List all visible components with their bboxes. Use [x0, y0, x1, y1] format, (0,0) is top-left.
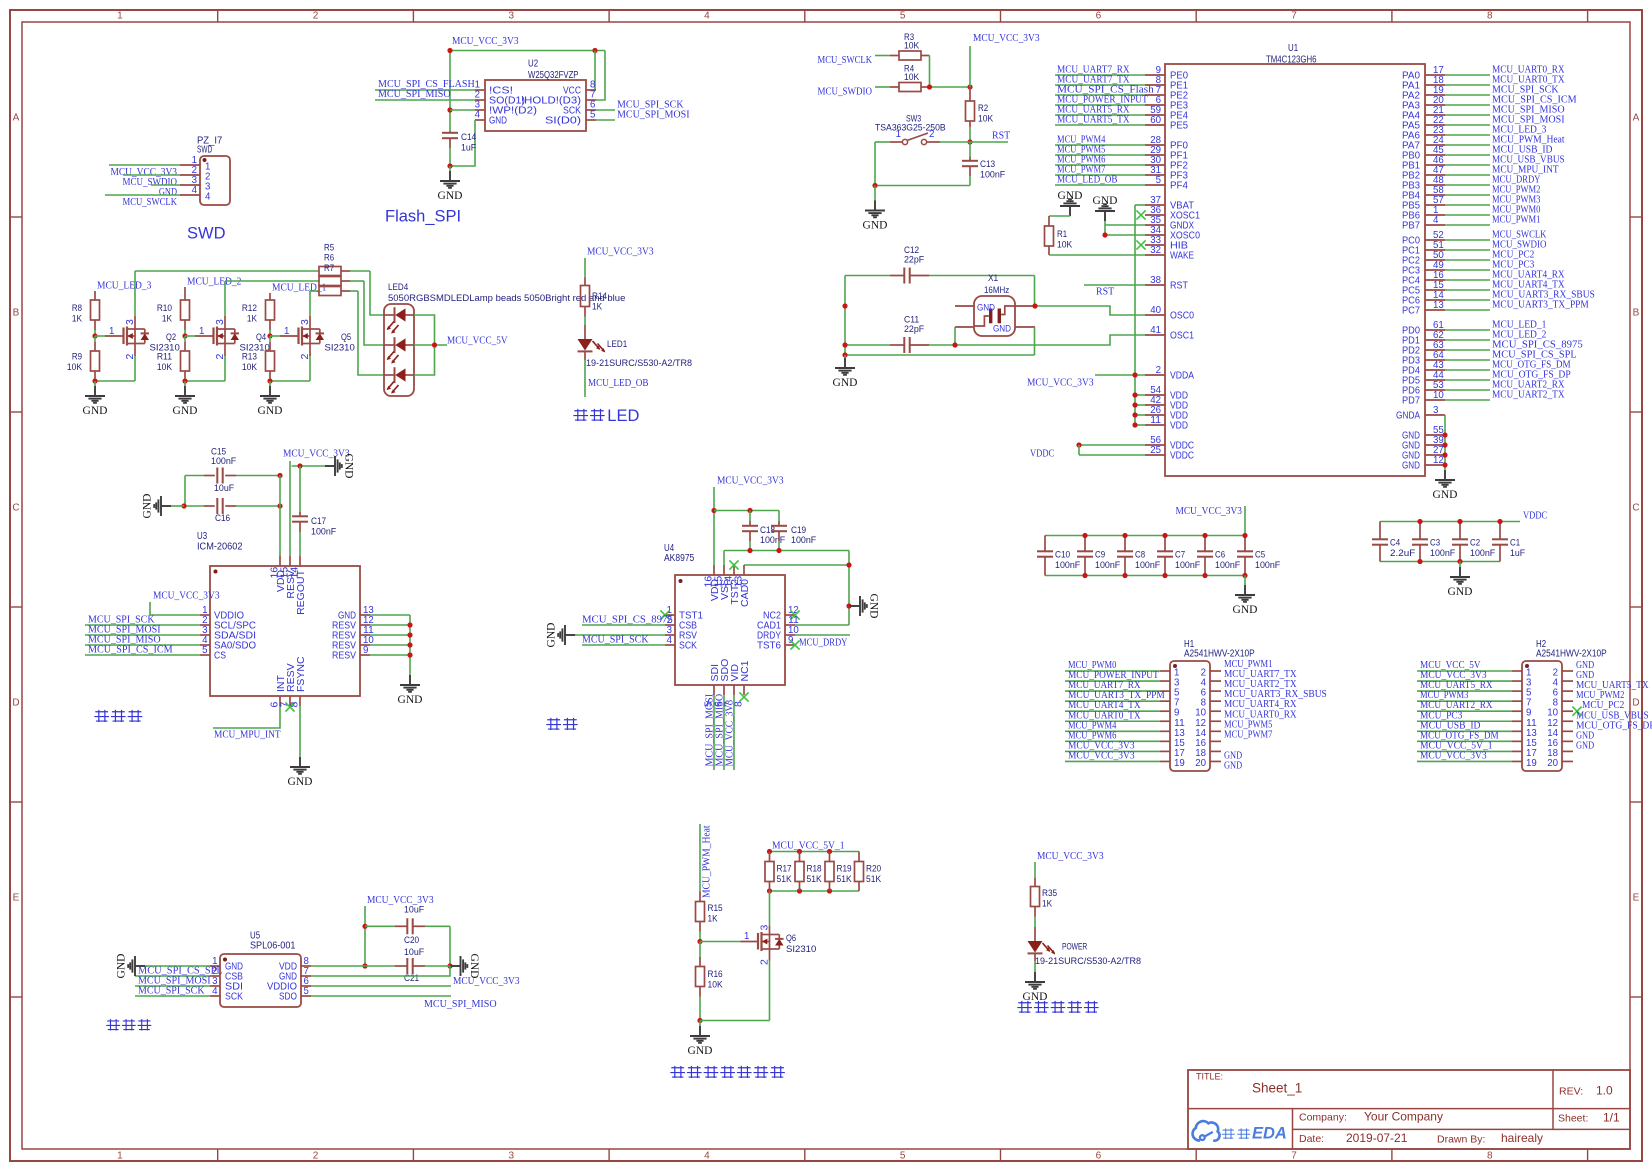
U5 pin 2 CSB net MCU_SPI_CS_SPL: [210, 975, 220, 977]
ground symbol below C2: [1459, 562, 1461, 568]
junction dot crystal right: [1032, 303, 1037, 308]
svg-text:MCU_SPI_MISO: MCU_SPI_MISO: [378, 88, 451, 100]
svg-text:GND: GND: [1093, 195, 1118, 207]
H1 pin 5 net MCU_UART7_RX: [1160, 690, 1170, 692]
X1 right plate inner path and top-right lead: [1001, 306, 1016, 315]
H2 pin 9 net MCU_UART2_RX: [1512, 710, 1522, 712]
svg-text:GND: GND: [1576, 739, 1594, 751]
svg-text:3: 3: [124, 319, 136, 325]
resistor R4 10K: [875, 86, 890, 88]
U3 pin 14 REGOUT (top): [299, 556, 301, 566]
H2 pin 17 net MCU_VCC_5V_1: [1512, 750, 1522, 752]
svg-text:100nF: 100nF: [1135, 560, 1160, 571]
junction dot X1 to C11: [952, 342, 957, 347]
section title gyroscope: [94, 710, 109, 722]
U1 pin 28 PF0 net MCU_PWM4: [1145, 144, 1165, 146]
U1 pin 41 OSC1: [1145, 334, 1165, 336]
PZ_I7 pin 1 net MCU_VCC_3V3: [180, 164, 200, 166]
svg-text:PC7: PC7: [1402, 305, 1420, 317]
U4 pin 5 SDI (bottom) net MCU_SPI_MOSI: [713, 685, 715, 695]
svg-text:11: 11: [1150, 414, 1161, 426]
svg-text:SI2310: SI2310: [786, 944, 816, 955]
svg-text:GND: GND: [1433, 489, 1458, 501]
junction dot U4 VCC rail: [711, 508, 716, 513]
svg-text:Date:: Date:: [1299, 1133, 1324, 1145]
U1 pin 18 PA1 net MCU_UART0_TX: [1425, 84, 1445, 86]
U4 pin 16 VDD (top): [713, 565, 715, 575]
H1 pin 9 net MCU_UART4_TX: [1160, 710, 1170, 712]
VDDC bank bottom rail: [1380, 561, 1460, 563]
svg-text:51K: 51K: [837, 874, 853, 885]
svg-text:60: 60: [1150, 114, 1161, 126]
svg-text:X1: X1: [988, 273, 998, 284]
svg-text:3: 3: [508, 10, 514, 21]
svg-text:100nF: 100nF: [1430, 548, 1455, 559]
U3 pin 4 SA0/SDO net MCU_SPI_MISO: [200, 644, 210, 646]
svg-text:R14: R14: [592, 291, 607, 302]
U1 pin 25 VDDC: [1145, 454, 1165, 456]
svg-text:1uF: 1uF: [1510, 548, 1525, 559]
H1 pin 18 net GND: [1210, 750, 1221, 752]
svg-text:10K: 10K: [904, 41, 920, 52]
svg-text:8: 8: [733, 701, 745, 707]
U1 pin 4 PB7 net MCU_PWM1: [1425, 224, 1445, 226]
capacitor C7 100nF: [1164, 536, 1166, 552]
VDDC bank top rail: [1380, 521, 1520, 523]
resistor R13 10K: [269, 336, 271, 342]
svg-text:C2: C2: [1470, 538, 1480, 549]
svg-text:U2: U2: [528, 59, 538, 70]
ground symbol below R9: [94, 381, 96, 386]
capacitor C1 1uF: [1499, 522, 1501, 540]
svg-text:GND: GND: [1058, 190, 1083, 202]
U4 pin 11 CAD1 grounded: [785, 624, 795, 626]
U1 pin 12 GND: [1425, 464, 1445, 466]
wire U5 VDD to VCC node: [311, 965, 395, 967]
resistor R18 51K: [799, 852, 801, 862]
svg-text:7: 7: [1291, 10, 1297, 21]
cap bank bottom rail: [1045, 575, 1245, 577]
junction dot Q6 gate node: [697, 939, 702, 944]
resistor R9 10K: [94, 336, 96, 342]
svg-text:10K: 10K: [67, 362, 83, 373]
svg-text:R16: R16: [708, 969, 723, 980]
svg-text:GND: GND: [398, 694, 423, 706]
wire GNDA down to ground rail: [1444, 415, 1446, 470]
svg-text:R1: R1: [1057, 229, 1067, 240]
ground symbol GND1 above R1: [1060, 199, 1080, 216]
wire R3 to R4 junction: [929, 56, 931, 88]
svg-text:MCU_VCC_3V3: MCU_VCC_3V3: [1175, 505, 1242, 517]
resistor R14 1K: [581, 286, 590, 307]
H2 pin 5 net MCU_UART5_RX: [1512, 690, 1522, 692]
U1 pin 37 VBAT: [1145, 204, 1165, 206]
U1 pin 31 PF3 net MCU_PWM7: [1145, 174, 1165, 176]
svg-text:MCU_LED_OB: MCU_LED_OB: [1057, 174, 1118, 186]
svg-text:1: 1: [744, 930, 750, 942]
capacitor C12 22pF: [845, 275, 890, 277]
svg-text:D: D: [12, 698, 19, 709]
capacitor C21 10uF: [395, 965, 408, 967]
svg-text:A: A: [13, 113, 20, 124]
wire VCC to cap bank: [1244, 506, 1246, 536]
U1 pin 7 PE2 net MCU_SPI_CS_Flash: [1145, 94, 1165, 96]
ground symbol below FSYNC: [290, 757, 310, 774]
svg-text:POWER: POWER: [1062, 942, 1087, 953]
svg-text:GND: GND: [489, 115, 507, 127]
svg-text:WAKE: WAKE: [1170, 250, 1194, 262]
ground symbol right of REGOUT node: [325, 456, 342, 476]
wire U5 GND pin to ground flag: [145, 965, 210, 967]
svg-text:MCU_DRDY: MCU_DRDY: [799, 637, 848, 649]
svg-text:R8: R8: [72, 303, 82, 314]
svg-text:3: 3: [299, 319, 311, 325]
U5 pin 1 GND grounded: [210, 965, 220, 967]
H1 pin 7 net MCU_UART3_TX_PPM: [1160, 700, 1170, 702]
wire U4 VCC top rail: [714, 510, 779, 512]
wire Q6 drain to heater rail: [769, 891, 771, 926]
svg-text:R6: R6: [324, 253, 334, 264]
svg-text:MCU_PWM7: MCU_PWM7: [1224, 728, 1273, 740]
U5 pin 7 GND: [301, 975, 311, 977]
wire GND2 stem to XOSC0 row: [1104, 221, 1106, 235]
svg-text:9: 9: [363, 644, 369, 656]
U1 pin 5 PF4 net MCU_LED_OB: [1145, 184, 1165, 186]
capacitor C13 100nF: [969, 142, 971, 157]
svg-text:MCU_VCC_3V3: MCU_VCC_3V3: [452, 35, 519, 47]
U4 pin 4 SCK net MCU_SPI_SCK: [665, 644, 675, 646]
wire source ground rail Q2: [95, 380, 135, 382]
capacitor C18 100nF: [749, 511, 751, 522]
capacitor C5 100nF: [1244, 536, 1246, 552]
svg-text:GND: GND: [116, 954, 128, 979]
wire U3 right ground rail: [409, 615, 411, 675]
svg-text:PF4: PF4: [1170, 180, 1188, 192]
svg-text:PD7: PD7: [1402, 395, 1420, 407]
svg-text:1K: 1K: [592, 302, 603, 313]
junction dots heater VCC rail: [767, 849, 772, 854]
U5 first pin dot: [223, 958, 227, 962]
wire SW3 to ground rail: [874, 142, 876, 186]
wire LED4 anode row2 to VCC5V: [414, 344, 447, 346]
svg-text:GND: GND: [343, 454, 355, 479]
U1 pin 52 PC0 net MCU_SWCLK: [1425, 239, 1445, 241]
capacitor C2 100nF: [1459, 522, 1461, 540]
svg-text:32: 32: [1150, 244, 1161, 256]
wire R5 to LED4 row1: [370, 271, 384, 315]
U5 pin 4 SCK net MCU_SPI_SCK: [210, 995, 220, 997]
resistor R16 10K: [699, 942, 701, 958]
wire U5 pin7 to ground node: [311, 966, 450, 976]
junction dots VDDC bank: [1417, 519, 1422, 524]
section title barometer: [106, 1019, 120, 1030]
svg-text:100nF: 100nF: [1470, 548, 1495, 559]
svg-text:Your Company: Your Company: [1364, 1110, 1443, 1124]
U1 pin 63 PD2 net MCU_SPI_CS_8975: [1425, 349, 1445, 351]
svg-text:10K: 10K: [157, 362, 173, 373]
svg-text:SWD: SWD: [197, 145, 212, 156]
ground symbol below POWER LED: [1025, 972, 1045, 989]
no-connect X on U4 TST2: [729, 560, 738, 569]
svg-text:5: 5: [900, 1151, 906, 1162]
svg-text:MCU_SPI_SCK: MCU_SPI_SCK: [138, 985, 205, 997]
wire GND1 to R1: [1049, 215, 1070, 217]
resistor R11 10K: [184, 336, 186, 342]
U1 pin 14 PC6 net MCU_UART3_RX_SBUS: [1425, 299, 1445, 301]
svg-text:MCU_VCC_3V3: MCU_VCC_3V3: [717, 475, 784, 487]
svg-text:51K: 51K: [866, 874, 882, 885]
svg-text:GND: GND: [863, 220, 888, 232]
U1 pin 49 PC3 net MCU_PC3: [1425, 269, 1445, 271]
svg-text:GND: GND: [546, 623, 558, 648]
U1 pin 64 PD3 net MCU_SPI_CS_SPL: [1425, 359, 1445, 361]
wire U4 ground rail below caps: [724, 550, 849, 552]
PZ_I7 pin 3 net GND: [180, 184, 200, 186]
svg-text:9: 9: [788, 634, 794, 646]
U3 pin 10 RESV (right): [360, 644, 370, 646]
LED4 5050 RGB LED box: [384, 304, 414, 396]
svg-text:A2541HWV-2X10P: A2541HWV-2X10P: [1536, 649, 1607, 660]
svg-text:100nF: 100nF: [211, 456, 236, 467]
svg-text:C14: C14: [461, 132, 476, 143]
svg-text:MCU_VCC_3V3: MCU_VCC_3V3: [724, 700, 736, 767]
svg-text:MCU_SPI_CS_8975: MCU_SPI_CS_8975: [582, 614, 673, 626]
svg-text:1K: 1K: [708, 914, 719, 925]
wire Q2 source down: [134, 344, 136, 357]
U1 pin 53 PD6 net MCU_UART2_RX: [1425, 389, 1445, 391]
ground symbol below SW3: [874, 186, 876, 201]
U3 pin 6 INT (bottom): [279, 696, 281, 706]
svg-text:C8: C8: [1135, 550, 1145, 561]
H2 pin 13 net MCU_USB_ID: [1512, 730, 1522, 732]
svg-text:10K: 10K: [1057, 240, 1073, 251]
PZ_I7 pin 2 net MCU_SWDIO: [180, 174, 200, 176]
PZ_I7 pin 4 net MCU_SWCLK: [180, 194, 200, 196]
U4 pin 1 TST1 no-connect X: [665, 614, 675, 616]
svg-text:4: 4: [704, 10, 710, 21]
svg-text:7: 7: [1291, 1151, 1297, 1162]
svg-text:RST: RST: [992, 130, 1011, 142]
svg-text:20: 20: [1547, 757, 1558, 769]
svg-text:MCU_VCC_3V3: MCU_VCC_3V3: [153, 590, 220, 602]
svg-text:C17: C17: [311, 516, 326, 527]
svg-text:1uF: 1uF: [461, 143, 476, 154]
wire VCC to U3 pin15: [289, 461, 291, 556]
svg-text:2: 2: [929, 128, 935, 140]
U5 pin 6 VDDIO net MCU_VCC_3V3: [301, 985, 311, 987]
svg-text:1: 1: [896, 128, 902, 140]
svg-text:MCU_MPU_INT: MCU_MPU_INT: [214, 729, 281, 741]
U3 pin 2 SCL/SPC net MCU_SPI_SCK: [200, 624, 210, 626]
wire GNDX row: [1105, 224, 1145, 226]
U1 pin 35 GNDX: [1145, 224, 1165, 226]
svg-text:13: 13: [1433, 299, 1444, 311]
X1 bottom-left lead and inner path to left plate: [955, 326, 975, 328]
wire gate node to Q5: [270, 335, 280, 337]
svg-text:OSC1: OSC1: [1170, 330, 1194, 342]
junction dots crystal left rail: [842, 303, 847, 308]
capacitor C19 100nF: [778, 511, 780, 522]
U1 pin 24 PA7 net MCU_PWM_Heat: [1425, 144, 1445, 146]
U1 pin 42 VDD: [1145, 404, 1165, 406]
U1 pin 29 PF1 net MCU_PWM5: [1145, 154, 1165, 156]
wire R6 to LED4 row2: [364, 281, 384, 345]
LED1 19-21SURC red LED: [584, 325, 586, 339]
capacitor C16 10uF: [184, 505, 204, 507]
wire gate node to Q6: [700, 941, 741, 943]
U1 pin 11 VDD: [1145, 424, 1165, 426]
svg-text:RST: RST: [1096, 286, 1115, 298]
svg-text:MCU_VCC_5V: MCU_VCC_5V: [447, 335, 508, 347]
svg-text:6: 6: [1096, 1151, 1102, 1162]
U1 pin 26 VDD: [1145, 414, 1165, 416]
wire Q5 drain up: [309, 291, 311, 316]
svg-text:20: 20: [1195, 757, 1206, 769]
svg-text:MCU_SPI_CS_ICM: MCU_SPI_CS_ICM: [88, 644, 173, 656]
wire rail down to VSS: [723, 551, 725, 566]
svg-text:GND: GND: [173, 405, 198, 417]
U1 pin 36 XOSC1 no-connect X: [1145, 214, 1165, 216]
svg-text:ICM-20602: ICM-20602: [197, 542, 243, 553]
svg-text:4: 4: [192, 184, 198, 196]
svg-text:MCU_SPI_SCK: MCU_SPI_SCK: [582, 634, 649, 646]
capacitor C8 100nF: [1124, 536, 1126, 552]
U1 pin 9 PE0 net MCU_UART7_RX: [1145, 74, 1165, 76]
wire VCC rail above U2: [450, 50, 605, 52]
svg-text:R20: R20: [866, 864, 881, 875]
U2 pin 8 VCC: [586, 89, 596, 91]
svg-text:RESV: RESV: [332, 650, 356, 662]
svg-text:MCU_VCC_3V3: MCU_VCC_3V3: [587, 246, 654, 258]
U1 pin 1 PB6 net MCU_PWM0: [1425, 214, 1445, 216]
H2 pin 18 net GND: [1562, 750, 1573, 752]
section title power indicator: [1017, 1001, 1032, 1013]
svg-text:U1: U1: [1288, 43, 1298, 54]
capacitor C9 100nF: [1084, 536, 1086, 552]
svg-text:Drawn By:: Drawn By:: [1437, 1134, 1485, 1146]
svg-text:GND: GND: [1224, 759, 1242, 771]
U2 pin 1 !CS! net MCU_SPI_CS_FLASH: [475, 89, 485, 91]
svg-text:R15: R15: [708, 903, 723, 914]
U3 pin 13 GND (right): [360, 614, 370, 616]
svg-text:4: 4: [667, 634, 673, 646]
U1 pin 17 PA0 net MCU_UART0_RX: [1425, 74, 1445, 76]
U1 pin 51 PC1 net MCU_SWDIO: [1425, 249, 1445, 251]
junction dot trunk at VDDA: [1132, 372, 1137, 377]
junction dot C16 ground node: [181, 503, 186, 508]
U4 pin 6 SDO (bottom) net MCU_SPI_MISO: [723, 685, 725, 695]
H2 pin 8 net MCU_PWM2: [1562, 700, 1573, 702]
svg-text:LED: LED: [607, 407, 639, 425]
wire VDDC link: [1078, 445, 1080, 455]
wire RST node to label: [970, 141, 1008, 143]
svg-text:MCU_UART3_TX_PPM: MCU_UART3_TX_PPM: [1492, 299, 1589, 311]
junction dots C18/C19 bottom: [747, 548, 752, 553]
svg-text:R35: R35: [1042, 888, 1057, 899]
svg-text:C6: C6: [1215, 550, 1225, 561]
U1 pin 56 VDDC net VDDC: [1145, 444, 1165, 446]
H2 pin 2 net GND: [1562, 670, 1573, 672]
U1 pin 8 PE1 net MCU_UART7_TX: [1145, 84, 1165, 86]
ground symbol below R13: [269, 381, 271, 386]
ground symbol below C5: [1244, 576, 1246, 586]
H2 pin 11 net MCU_PC3: [1512, 720, 1522, 722]
svg-text:5: 5: [590, 109, 596, 121]
svg-text:GND: GND: [977, 303, 995, 314]
U1 pin 61 PD0 net MCU_LED_1: [1425, 329, 1445, 331]
crystal X1 16MHz box: [974, 296, 1015, 336]
svg-text:R9: R9: [72, 352, 82, 363]
svg-text:PB7: PB7: [1402, 220, 1420, 232]
svg-text:2: 2: [313, 1151, 319, 1162]
U1 pin 45 PB0 net MCU_USB_ID: [1425, 154, 1445, 156]
svg-text:5: 5: [202, 644, 208, 656]
svg-text:10K: 10K: [904, 72, 920, 83]
svg-text:10K: 10K: [978, 114, 994, 125]
svg-text:NC1: NC1: [739, 660, 751, 681]
ground symbol below R11: [184, 381, 186, 386]
U4 pin 12 NC2 no-connect X: [785, 614, 795, 616]
wire LED4 anode row1: [414, 315, 435, 345]
svg-text:SCK: SCK: [679, 640, 697, 652]
title block dividers: [1188, 1108, 1630, 1110]
H1 pin 4 net MCU_UART7_TX: [1210, 680, 1221, 682]
junction dots on U2 VCC rail: [447, 48, 452, 53]
ground symbol left of C16: [171, 505, 184, 507]
wire Q4 source down: [224, 344, 226, 357]
svg-text:Q2: Q2: [166, 332, 176, 343]
svg-text:R7: R7: [324, 263, 334, 274]
H2 pin 14 net MCU_OTG_FS_DP: [1562, 730, 1573, 732]
U2 pin 7 !HOLD!(D3): [586, 99, 596, 101]
svg-text:MCU_LED_3: MCU_LED_3: [97, 280, 151, 292]
U4 pin 3 RSV grounded: [665, 634, 675, 636]
svg-text:1/1: 1/1: [1603, 1111, 1620, 1125]
U4 first pin dot: [679, 579, 683, 583]
svg-text:Company:: Company:: [1299, 1112, 1347, 1124]
svg-text:8: 8: [1487, 10, 1493, 21]
U3 pin 5 CS net MCU_SPI_CS_ICM: [200, 654, 210, 656]
junction dot VDDC: [1076, 442, 1081, 447]
U1 pin 50 PC2 net MCU_PC2: [1425, 259, 1445, 261]
capacitor C20 10uF: [365, 925, 395, 927]
svg-text:3: 3: [1433, 404, 1439, 416]
svg-text:LED4: LED4: [388, 282, 408, 293]
junction dot LED4 VCC node: [432, 342, 437, 347]
U1 pin 21 PA4 net MCU_SPI_MISO: [1425, 114, 1445, 116]
wire R7 to LED4 row3: [358, 291, 384, 375]
wire X1 right pin to ground row: [1034, 327, 1036, 355]
ground symbol below U1: [1435, 470, 1455, 487]
resistor R1 10K: [1048, 216, 1050, 226]
U1 pin 54 VDD: [1145, 394, 1165, 396]
U1 pin 16 PC4 net MCU_UART4_RX: [1425, 279, 1445, 281]
svg-text:GND: GND: [1233, 604, 1258, 616]
junction dot at SW3 ground node: [872, 183, 877, 188]
U1 pin 32 WAKE: [1145, 254, 1165, 256]
wire R4 junction to VCC node: [930, 86, 971, 88]
ground symbol below R16: [699, 1021, 701, 1027]
wire INT to MCU_MPU_INT label: [213, 706, 280, 728]
svg-text:1: 1: [199, 325, 205, 337]
H1 pin 10 net MCU_UART4_RX: [1210, 710, 1221, 712]
wire source ground rail Q4: [185, 380, 225, 382]
U1 pin 34 XOSC0: [1145, 234, 1165, 236]
wire VCC to R14: [584, 258, 586, 278]
IC U3 ICM-20602 box: [210, 566, 360, 696]
resistor R35 1K: [1031, 887, 1040, 907]
ground symbol below U3 right rail: [400, 675, 420, 692]
